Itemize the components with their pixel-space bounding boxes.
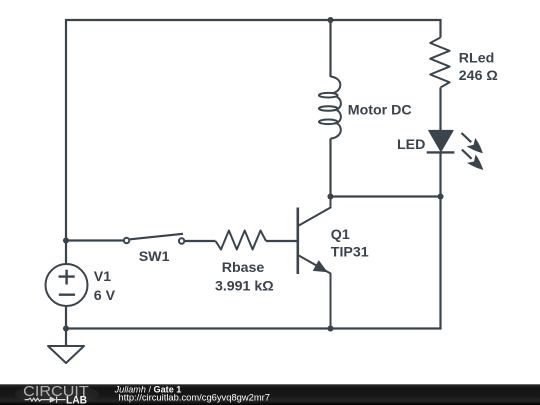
junction: top wire / inductor	[327, 17, 333, 23]
inductor loop 2	[319, 106, 338, 111]
svg-text:RLed: RLed	[459, 51, 494, 67]
inductor loop 3	[319, 120, 338, 125]
LED emission arrow 2 head	[467, 155, 483, 171]
svg-text:3.991 kΩ: 3.991 kΩ	[215, 278, 274, 294]
inductor arc 1-2	[334, 97, 341, 110]
junction: emitter / bottom wire	[327, 325, 333, 331]
transistor Q1 emitter lead	[299, 256, 331, 329]
transistor Q1 base bar	[296, 208, 299, 275]
LED D1 cathode bar	[427, 151, 455, 153]
wire collector mid	[331, 195, 441, 197]
voltage source V1 circle	[46, 264, 88, 306]
svg-text:TIP31: TIP31	[331, 244, 369, 260]
logo wire to LAB	[57, 399, 66, 401]
svg-text:LAB: LAB	[66, 395, 87, 405]
logo diode bar	[56, 396, 58, 402]
switch SW1 right contact	[179, 238, 184, 243]
wire inductor top	[329, 20, 331, 77]
svg-text:LED: LED	[397, 137, 425, 153]
svg-text:246 Ω: 246 Ω	[459, 68, 498, 84]
svg-text:6 V: 6 V	[94, 288, 116, 304]
inductor exit arc	[331, 123, 341, 138]
wire switch feed	[66, 239, 123, 241]
junction: left wire / switch branch	[63, 237, 69, 243]
transistor Q1 collector lead	[299, 197, 331, 226]
logo diode triangle	[50, 396, 57, 402]
switch SW1 left contact	[124, 238, 129, 243]
svg-text:SW1: SW1	[139, 249, 170, 265]
LED emission arrow 2 shaft	[462, 150, 472, 159]
junction: inductor / collector	[327, 193, 333, 199]
wire right lower + bottom	[66, 152, 441, 328]
svg-text:Q1: Q1	[331, 227, 350, 243]
inductor arc 2-3	[334, 110, 341, 123]
ground	[48, 346, 84, 363]
inductor L1 Motor DC entry arc	[331, 77, 341, 94]
wire switch to Rbase	[185, 240, 216, 242]
svg-text:Rbase: Rbase	[222, 260, 265, 276]
LED D1 triangle	[429, 131, 453, 152]
junction: bottom wire / ground / V1	[63, 325, 69, 331]
logo resistor squiggle	[25, 398, 50, 401]
svg-text:http://circuitlab.com/cg6yvq8g: http://circuitlab.com/cg6yvq8gw2mr7	[118, 392, 270, 403]
resistor RLed	[430, 38, 449, 88]
wire Rbase to base	[266, 240, 297, 242]
svg-text:V1: V1	[94, 269, 111, 285]
wire RLed to LED	[439, 88, 441, 131]
switch SW1 lever	[130, 234, 183, 240]
LED emission arrow 1 shaft	[462, 133, 472, 142]
svg-text:Motor DC: Motor DC	[348, 102, 412, 118]
V1 plus sign	[59, 270, 75, 285]
resistor Rbase	[216, 231, 267, 250]
wire V1 bottom to ground	[65, 306, 67, 346]
junction: collector wire / LED branch	[437, 193, 443, 199]
transistor Q1 emitter arrow	[314, 261, 327, 272]
V1 minus sign	[59, 294, 75, 296]
LED emission arrow 1 head	[467, 138, 483, 154]
logo glow	[15, 384, 99, 404]
inductor loop 1	[319, 93, 338, 98]
wire left + top + right upper	[66, 20, 441, 264]
wire inductor bottom	[329, 139, 331, 197]
footer bar	[0, 384, 540, 405]
